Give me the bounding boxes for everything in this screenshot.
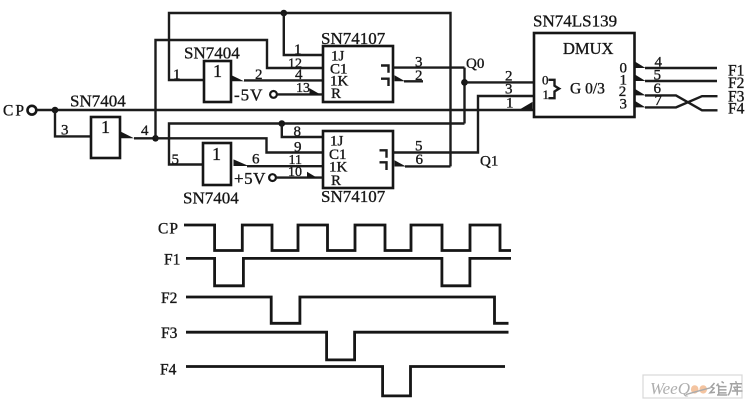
svg-text:4: 4 [141, 123, 149, 139]
wire: FF1 Q output (pin 3) [393, 66, 465, 68]
wire: U2 output (pin 2) to FF1 K (pin 4) [244, 79, 323, 81]
triangle: DMUX output 2 wedge [635, 89, 646, 96]
svg-text:1: 1 [173, 67, 181, 83]
triangle: DMUX G enable wedge [520, 102, 533, 109]
flip-flop FF1 SN74107 [323, 46, 393, 102]
wire: FF1 Q-bar stub (pin 2) [404, 80, 423, 82]
node: U1 output junction [152, 135, 159, 142]
svg-text:2: 2 [255, 67, 263, 83]
svg-text:5: 5 [172, 152, 180, 168]
triangle: FF2 R active-low wedge [307, 172, 317, 178]
triangle: FF2 Q-bar wedge [395, 160, 407, 166]
node: top feedback junction [281, 10, 288, 17]
waveform CP [184, 225, 511, 251]
triangle: FF1 R active-low wedge [310, 88, 321, 94]
svg-text:3: 3 [620, 97, 628, 113]
svg-text:+5V: +5V [234, 169, 266, 188]
wire: FF1 R (pin 13) [277, 93, 323, 95]
svg-text:F4: F4 [160, 362, 177, 379]
svg-text:SN74107: SN74107 [321, 187, 386, 206]
wire: output F1 (pin 4) [645, 67, 717, 69]
wire: CP bus from terminal to DMUX enable [36, 109, 533, 111]
waveform F1 [186, 258, 511, 285]
wire: FF2 Q output (pin 5) to DMUX select B (pin 3) [393, 96, 534, 153]
svg-text:1: 1 [543, 87, 550, 102]
node: CP junction [52, 107, 59, 114]
svg-text:2: 2 [415, 68, 423, 84]
triangle: FF1 Q-bar wedge [395, 75, 406, 81]
svg-text:1: 1 [101, 117, 110, 137]
svg-text:6: 6 [252, 152, 260, 168]
svg-text:Q1: Q1 [480, 154, 498, 170]
wire: clock to FF1 C1 (pin 12) [156, 40, 324, 138]
svg-text:6: 6 [416, 152, 424, 168]
wire: output pin 6 crossing to F4 [645, 95, 718, 110]
demultiplexer U4 SN74LS139 [534, 33, 635, 117]
wire: U1 output (pin 4) [134, 137, 156, 139]
svg-text:7: 7 [655, 93, 663, 109]
triangle: DMUX output 3 wedge [635, 101, 646, 108]
triangle: DMUX output 0 wedge [635, 61, 646, 68]
waveform F3 [186, 332, 509, 360]
svg-text:SN7404: SN7404 [184, 44, 240, 63]
wire: Q0 feedback to FF2 J and inverter U3 input (pin 5) [169, 124, 465, 165]
svg-text:DMUX: DMUX [563, 39, 614, 58]
node: FF2 J junction [279, 120, 286, 127]
-5V terminal [234, 86, 277, 105]
+5V terminal [234, 169, 276, 188]
triangle: DMUX output 1 wedge [635, 74, 646, 81]
inverter U1 SN7404 [91, 117, 134, 158]
svg-text:1: 1 [212, 144, 221, 164]
wire: Q0 vertical [463, 68, 465, 124]
wire: select A to DMUX (pin 2) [465, 81, 535, 83]
svg-text:3: 3 [61, 123, 69, 139]
wire: CP branch down to inverter U1 input (pin 3) [55, 110, 91, 136]
svg-text:WeeQ: WeeQ [650, 379, 690, 398]
svg-text:CP: CP [158, 221, 179, 238]
inverter U3 SN7404 [203, 143, 249, 185]
svg-text:0: 0 [542, 73, 549, 88]
svg-text:Q0: Q0 [466, 56, 484, 72]
wire: FF2 Q-bar (pin 6) to feedback riser [405, 165, 451, 167]
svg-text:R: R [331, 86, 341, 102]
input terminal CP [3, 103, 36, 120]
svg-text:F3: F3 [161, 325, 178, 342]
svg-text:10: 10 [288, 165, 302, 180]
svg-text:G 0/3: G 0/3 [570, 81, 605, 98]
svg-text:1: 1 [506, 96, 514, 112]
wire: FF1 J input (pin 1) [284, 13, 323, 55]
svg-text:R: R [331, 173, 341, 189]
node Q0 [461, 79, 468, 86]
wire: feedback from FF2 Q-bar up over the top to inverter U2 input (pin 1) [169, 13, 451, 166]
svg-text:SN7404: SN7404 [70, 92, 126, 111]
wire: output F2 (pin 5) [645, 80, 717, 82]
inverter U2 SN7404 [204, 61, 244, 102]
svg-text:13: 13 [296, 81, 310, 96]
waveform F4 [186, 367, 505, 396]
wire: U3 output (pin 6) to FF2 K (pin 11) [247, 165, 323, 167]
watermark box WeeQoo [643, 375, 743, 398]
svg-text:1: 1 [294, 42, 302, 58]
svg-text:SN74LS139: SN74LS139 [533, 12, 617, 31]
svg-text:F2: F2 [161, 290, 177, 307]
svg-text:1: 1 [213, 61, 222, 81]
svg-text:-5V: -5V [234, 86, 263, 105]
flip-flop FF2 SN74107 [323, 131, 393, 189]
svg-text:SN7404: SN7404 [183, 189, 239, 208]
svg-text:F1: F1 [164, 252, 180, 269]
waveform F2 [186, 297, 509, 323]
wire: output pin 7 crossing to F3 [645, 96, 718, 107]
wire: FF2 J input (pin 8) [282, 124, 323, 138]
svg-text:F4: F4 [728, 101, 745, 118]
svg-text:8: 8 [294, 124, 302, 140]
wire: FF2 R (pin 10) [276, 176, 323, 178]
svg-text:CP: CP [3, 103, 26, 120]
wire: clock to FF2 C1 (pin 9) [156, 138, 324, 152]
